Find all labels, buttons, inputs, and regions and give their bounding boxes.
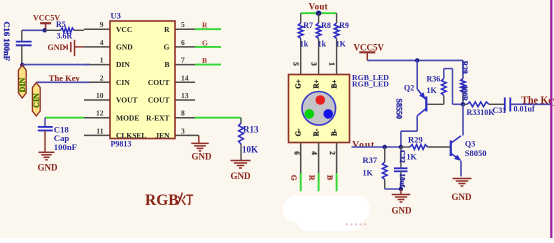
- svg-text:R36: R36: [427, 75, 441, 84]
- svg-text:B: B: [202, 56, 207, 65]
- svg-text:VCC: VCC: [116, 25, 132, 34]
- svg-text:RGB: RGB: [145, 192, 179, 209]
- svg-text:R8: R8: [321, 21, 331, 30]
- svg-text:VCC5V: VCC5V: [354, 43, 385, 53]
- svg-text:CIN: CIN: [32, 93, 41, 108]
- svg-text:COUT: COUT: [148, 78, 170, 87]
- svg-text:B+: B+: [331, 80, 339, 89]
- svg-text:1K: 1K: [407, 152, 418, 161]
- svg-text:DIN: DIN: [18, 77, 27, 92]
- svg-text:COUT: COUT: [148, 96, 170, 105]
- svg-text:2: 2: [328, 151, 336, 155]
- svg-text:100nF: 100nF: [54, 142, 77, 152]
- svg-text:10: 10: [96, 91, 104, 100]
- svg-text:1K: 1K: [336, 40, 347, 49]
- svg-text:S8050: S8050: [465, 148, 487, 158]
- svg-text:1: 1: [327, 62, 335, 66]
- svg-text:GND: GND: [392, 206, 413, 216]
- svg-text:1k: 1k: [300, 40, 309, 49]
- svg-text:4: 4: [100, 38, 104, 47]
- svg-text:JEN: JEN: [155, 131, 170, 140]
- svg-text:1: 1: [100, 56, 104, 65]
- svg-text:G-: G-: [295, 128, 303, 136]
- svg-text:11: 11: [96, 126, 103, 135]
- svg-text:C16 100nF: C16 100nF: [2, 22, 12, 61]
- svg-text:1K: 1K: [363, 168, 374, 177]
- svg-text:B: B: [164, 60, 169, 69]
- svg-text:R9: R9: [339, 21, 349, 30]
- svg-text:DIN: DIN: [116, 60, 130, 69]
- svg-text:R13: R13: [243, 125, 259, 135]
- svg-text:Vout: Vout: [309, 1, 328, 11]
- svg-text:1K: 1K: [427, 86, 438, 95]
- svg-text:R-: R-: [313, 128, 321, 136]
- svg-text:GND: GND: [116, 43, 133, 52]
- svg-text:CIN: CIN: [116, 78, 130, 87]
- svg-text:100R: 100R: [460, 86, 468, 103]
- svg-text:1k: 1k: [318, 40, 327, 49]
- svg-text:Q2: Q2: [404, 83, 414, 92]
- svg-text:3: 3: [309, 62, 317, 66]
- svg-text:2: 2: [100, 73, 104, 82]
- svg-text:R: R: [307, 175, 316, 181]
- svg-text:14: 14: [181, 73, 189, 82]
- svg-text:R7: R7: [303, 21, 313, 30]
- svg-text:C31: C31: [493, 106, 507, 115]
- svg-text:13: 13: [181, 91, 189, 100]
- svg-text:6: 6: [181, 38, 185, 47]
- svg-text:5: 5: [181, 20, 185, 29]
- svg-text:10K: 10K: [242, 145, 258, 155]
- svg-text:6: 6: [292, 151, 300, 155]
- svg-text:3.6R: 3.6R: [57, 32, 73, 41]
- svg-text:GND: GND: [48, 43, 66, 52]
- svg-text:GND: GND: [192, 152, 213, 162]
- svg-text:8: 8: [181, 109, 185, 118]
- svg-text:R3310K: R3310K: [467, 108, 496, 117]
- svg-text:GND: GND: [38, 163, 59, 173]
- svg-text:9: 9: [100, 20, 104, 29]
- svg-text:G+: G+: [295, 79, 303, 88]
- svg-text:S8550: S8550: [394, 99, 403, 119]
- svg-text:G: G: [164, 43, 170, 52]
- svg-text:C32: C32: [398, 150, 407, 163]
- svg-text:U3: U3: [111, 11, 121, 21]
- svg-text:MODE: MODE: [116, 113, 139, 122]
- svg-text:R+: R+: [313, 79, 321, 88]
- svg-text:GND: GND: [231, 171, 252, 181]
- svg-text:R: R: [202, 21, 208, 30]
- svg-text:B-: B-: [331, 128, 339, 136]
- svg-text:G: G: [289, 175, 298, 181]
- svg-text:5: 5: [292, 62, 300, 66]
- svg-text:B: B: [325, 175, 334, 180]
- svg-text:VOUT: VOUT: [116, 96, 138, 105]
- svg-text:The Key: The Key: [521, 96, 554, 107]
- svg-text:R-EXT: R-EXT: [146, 113, 169, 122]
- svg-text:3: 3: [181, 126, 185, 135]
- svg-text:4: 4: [310, 151, 318, 155]
- svg-text:12: 12: [96, 109, 104, 118]
- svg-text:GND: GND: [452, 192, 473, 202]
- svg-text:R37: R37: [363, 155, 378, 165]
- svg-text:10uf: 10uf: [398, 174, 406, 188]
- svg-text:Vout: Vout: [352, 140, 375, 150]
- svg-text:7: 7: [181, 56, 185, 65]
- svg-text:R28: R28: [460, 61, 469, 74]
- svg-text:R5: R5: [56, 20, 66, 29]
- svg-text:P9813: P9813: [111, 140, 132, 149]
- svg-text:R: R: [164, 25, 170, 34]
- svg-text:G: G: [202, 38, 208, 47]
- svg-text:R29: R29: [408, 135, 423, 145]
- svg-text:RGB_LED: RGB_LED: [352, 80, 389, 89]
